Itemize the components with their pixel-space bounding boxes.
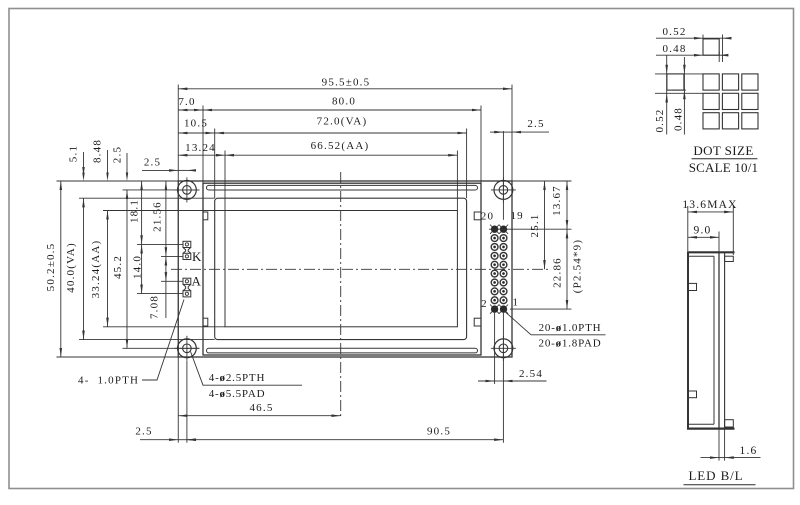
side view body: [688, 252, 719, 428]
ext line pin col left down: [494, 313, 496, 384]
bezel tab right lower: [474, 318, 481, 326]
svg-text:21.56: 21.56: [151, 201, 163, 232]
dimension 18.1 and 14.0: [141, 181, 143, 244]
ext line bezel left up: [202, 106, 204, 184]
bezel tab left lower: [203, 318, 208, 326]
ext line dot sq bottom left: [672, 89, 686, 91]
bezel tab left upper: [203, 212, 208, 220]
dot detail single square top: [703, 39, 719, 55]
svg-text:19: 19: [510, 210, 523, 222]
svg-text:8.48: 8.48: [92, 139, 104, 163]
svg-text:18.1: 18.1: [128, 199, 140, 223]
mounting hole top-left: [174, 177, 199, 202]
ext line PCB bottom left: [57, 356, 179, 358]
mounting hole top-right: [491, 177, 516, 202]
ext line dot col right: [722, 35, 724, 63]
svg-text:7.08: 7.08: [148, 295, 160, 319]
side view top cap: [687, 251, 735, 253]
dimension 0.52 horizontal: [656, 37, 703, 39]
ext line bezel right up: [480, 106, 482, 184]
svg-text:K: K: [192, 249, 203, 264]
svg-text:90.5: 90.5: [427, 425, 451, 437]
dimension 5.1 and 40.0(VA): [83, 152, 85, 176]
arrow 2.5 tip: [126, 173, 128, 182]
ext line right hole center up: [502, 131, 504, 220]
dimension 2.54: [478, 380, 495, 382]
svg-text:13.24: 13.24: [185, 142, 216, 154]
ext line VA bottom left: [79, 339, 215, 341]
arrow 5.1 tip: [82, 173, 84, 182]
ext line PCB left down: [177, 357, 179, 443]
underline DOT SIZE: [692, 158, 758, 160]
side view inner top line: [688, 255, 714, 257]
leader 4-2.5PTH: [191, 352, 204, 386]
dimension 0.52 vertical: [666, 55, 668, 74]
side view bottom cap: [687, 428, 735, 430]
svg-text:4-ø2.5PTH: 4-ø2.5PTH: [209, 372, 265, 384]
svg-text:72.0(VA): 72.0(VA): [317, 116, 368, 128]
pin header 2x10 pads: [490, 225, 508, 314]
dimension 0.48 horizontal: [656, 54, 703, 56]
ext line hole top-left center: [123, 189, 200, 191]
ext line side left up: [687, 206, 689, 251]
dimension 95.5±0.5: [178, 88, 512, 90]
svg-text:DOT SIZE: DOT SIZE: [693, 143, 753, 158]
dimension 46.5: [178, 415, 340, 417]
ext line A pad bottom: [137, 293, 183, 295]
svg-text:20-ø1.0PTH: 20-ø1.0PTH: [539, 322, 602, 334]
bezel top slot: [207, 185, 478, 190]
ext line side pcb left down: [718, 429, 720, 461]
svg-text:1: 1: [512, 296, 519, 308]
svg-text:7.0: 7.0: [178, 96, 195, 108]
svg-text:20: 20: [481, 210, 494, 222]
ext line side right up: [732, 206, 734, 255]
ext line AA right up: [456, 151, 458, 211]
side view bump lower: [688, 391, 697, 398]
svg-text:10.5: 10.5: [184, 118, 208, 130]
backlight pad A: [183, 278, 191, 297]
underline LED B/L: [684, 484, 756, 486]
dimension 72.0(VA): [215, 132, 467, 134]
ext line PCB top left: [57, 180, 179, 182]
underline 4-2.5PTH: [203, 384, 302, 386]
ext line AA top left: [103, 210, 225, 212]
svg-text:14.0: 14.0: [131, 255, 143, 279]
underline 20-1.0PTH: [531, 334, 606, 336]
svg-text:2.5: 2.5: [527, 118, 544, 130]
dimension 22.86: [566, 229, 568, 309]
svg-text:SCALE 10/1: SCALE 10/1: [689, 160, 759, 175]
display window VA: [215, 198, 467, 339]
svg-text:95.5±0.5: 95.5±0.5: [322, 76, 371, 88]
ext line VA right up: [466, 129, 468, 199]
backlight pad K: [183, 241, 191, 259]
svg-text:25.1: 25.1: [529, 213, 541, 237]
svg-text:4-ø5.5PAD: 4-ø5.5PAD: [209, 388, 266, 400]
ext line K pad top: [137, 243, 183, 245]
vertical centerline: [340, 172, 342, 419]
dimension 2.5 and 45.2: [126, 153, 128, 176]
svg-text:45.2: 45.2: [112, 255, 124, 279]
dimension 13.24: [178, 154, 225, 156]
ext line hole bottom-left center: [123, 347, 200, 349]
svg-text:LED B/L: LED B/L: [688, 468, 743, 483]
ext line pin row1: [510, 308, 572, 310]
ext line dot row2 top left: [655, 92, 703, 94]
side view PCB left line: [718, 252, 720, 428]
svg-text:(P2.54*9): (P2.54*9): [572, 239, 584, 294]
bezel tab right upper: [474, 212, 481, 220]
ext line dot sq right: [718, 52, 720, 63]
svg-text:4- 1.0PTH: 4- 1.0PTH: [78, 375, 139, 387]
dimension 8.48 and 33.24(AA): [107, 150, 109, 176]
horizontal centerline: [171, 268, 548, 270]
dimension 2.5 top right: [490, 131, 503, 133]
svg-text:0.48: 0.48: [672, 107, 684, 131]
dimension 10.5: [178, 132, 214, 134]
svg-text:2.54: 2.54: [519, 368, 543, 380]
svg-text:0.52: 0.52: [654, 108, 666, 132]
mounting hole bottom-right: [491, 336, 516, 361]
dot detail single square left: [667, 74, 684, 90]
ext line pin row20: [489, 228, 572, 230]
ext line dot col left up: [702, 35, 704, 39]
svg-text:9.0: 9.0: [694, 225, 712, 237]
svg-text:1.6: 1.6: [740, 445, 758, 457]
ext line PCB top right: [512, 180, 572, 182]
dimension 25.1: [544, 181, 546, 269]
side view bump upper: [688, 283, 697, 290]
ext line PCB left up: [177, 85, 179, 182]
dimension 2.5 hole offset: [142, 169, 178, 171]
svg-text:40.0(VA): 40.0(VA): [65, 242, 77, 293]
ext line left hole down: [186, 361, 188, 443]
ext line VA left up: [214, 129, 216, 199]
dimension 21.56 and 7.08: [165, 181, 167, 256]
svg-text:2: 2: [481, 298, 488, 310]
ext line AA left up: [224, 151, 226, 211]
svg-text:2.5: 2.5: [144, 156, 161, 168]
dimension 9.0: [688, 236, 719, 238]
svg-text:20-ø1.8PAD: 20-ø1.8PAD: [539, 338, 602, 350]
svg-text:0.52: 0.52: [662, 26, 686, 38]
dimension 66.52(AA): [225, 154, 457, 156]
dimension 50.2±0.5: [60, 181, 62, 357]
svg-text:33.24(AA): 33.24(AA): [90, 240, 102, 299]
svg-text:22.86: 22.86: [552, 257, 564, 288]
dimension 13.6MAX: [688, 211, 734, 213]
dot matrix 3x3 grid: [703, 74, 758, 129]
leader 4-1.0PTH: [142, 300, 184, 381]
ext line PCB right up: [511, 85, 513, 182]
ext line AA bottom left: [103, 326, 225, 328]
ext line pin col right down: [502, 313, 504, 443]
side view tab bottom: [725, 420, 734, 427]
dimension 1.6: [701, 457, 720, 459]
bezel bottom slot: [207, 348, 478, 353]
mounting hole bottom-left: [174, 336, 199, 361]
ext line side pcb right down: [724, 429, 726, 461]
dimension 0.48 vertical: [683, 57, 685, 74]
dimension 7.0: [178, 109, 203, 111]
side view inner vertical: [713, 256, 715, 424]
ext line A pad top: [161, 280, 183, 282]
svg-text:13.67: 13.67: [551, 185, 563, 216]
ext line dot row top left: [655, 73, 703, 75]
svg-text:5.1: 5.1: [68, 145, 80, 162]
svg-text:80.0: 80.0: [332, 96, 356, 108]
svg-text:2.5: 2.5: [112, 146, 124, 163]
leader 20-1.0PTH: [505, 311, 531, 335]
svg-text:2.5: 2.5: [135, 425, 152, 437]
active area AA: [225, 211, 457, 327]
dimension 13.67: [566, 181, 568, 229]
svg-text:0.48: 0.48: [662, 43, 686, 55]
dimension 2.5 bottom: [140, 439, 178, 441]
PCB outline: [178, 181, 512, 357]
ext line side pcb up: [718, 232, 720, 252]
svg-text:A: A: [192, 274, 203, 289]
side view PCB right line: [724, 252, 726, 428]
ext line K pad bottom: [161, 255, 183, 257]
svg-text:13.6MAX: 13.6MAX: [682, 199, 737, 211]
ext line VA top left: [79, 197, 215, 199]
svg-text:46.5: 46.5: [249, 402, 273, 414]
svg-text:50.2±0.5: 50.2±0.5: [45, 243, 57, 292]
bezel outline: [203, 183, 481, 355]
side view inner bottom line: [688, 423, 714, 425]
arrow 8.48 tip: [106, 173, 108, 182]
side view tab top: [725, 256, 734, 261]
dimension 90.5: [187, 439, 503, 441]
dimension 80.0: [203, 109, 481, 111]
svg-text:66.52(AA): 66.52(AA): [311, 140, 370, 152]
